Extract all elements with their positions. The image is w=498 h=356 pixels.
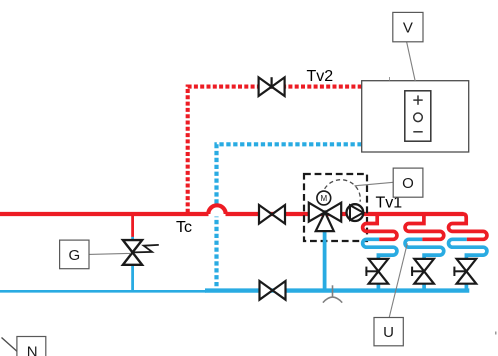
svg-text:Tv2: Tv2 [307,68,334,85]
wire: red supply main right segment [226,212,464,216]
floor loop 1 return (blue) [363,239,397,259]
lockshield valve loop 3 [453,259,476,284]
stray mark bottom right [495,332,497,335]
mixing unit dashed enclosure [304,174,367,241]
wire: blue stub loop 3 valve to return main [465,283,469,290]
wire: blue stub loop 2 valve to return main [422,283,426,290]
valve on red supply main [259,205,285,224]
pipe bridge: supply main over blue capillary [208,205,225,216]
controller display (+ o -) [405,91,431,141]
svg-text:O: O [402,175,414,192]
floor loop 3 return (blue) [449,239,487,259]
valve Tv2 on red capillary [259,77,285,96]
label box U with leader [374,243,407,345]
lockshield valve loop 2 [411,259,434,284]
safety valve at G (vertical bowtie with spring) [123,240,159,265]
floor loop 2 supply (red) [405,213,444,240]
valve on blue return main [260,281,286,300]
svg-text:Tc: Tc [176,219,192,236]
actuator dashed circle [325,180,361,202]
wire: blue stub above safety valve [131,237,134,241]
wire: red capillary Tv2 (dotted) controller to supply main at Tc [188,87,362,213]
motor M on mixing valve [317,191,331,205]
label box G with leader [60,240,131,269]
pump [347,204,364,221]
label box N with leader [2,337,46,356]
three-way mixing valve [309,203,341,231]
floor loop 3 supply (red, fed from main end) [449,214,487,239]
wire: blue return main thin left segment [0,290,206,293]
controller box [362,81,469,152]
wire: blue stub loop 1 valve to return main [377,283,381,290]
svg-text:G: G [68,247,80,264]
wire: red supply main left segment [0,212,209,216]
wire: blue sensor capillary (dotted) controller to return main [217,144,362,288]
floor loop 1 supply (red) [363,213,397,240]
siphon symbol under return main [323,285,342,302]
lockshield valve loop 1 [365,259,388,284]
stray tick above controller [389,77,390,81]
wire: blue drop from safety valve to return main [131,264,134,291]
svg-text:U: U [383,324,394,341]
svg-text:M: M [320,194,327,203]
svg-text:V: V [403,20,413,37]
svg-text:N: N [27,344,38,356]
floor loop 2 return (blue) [405,239,444,259]
wire: blue outlet from three-way valve to return main [323,229,327,289]
wire: red branch down to safety valve [131,214,134,237]
label box O with leader [355,168,423,197]
label box V with leader [393,12,423,81]
wire: blue return main thick segment [205,288,469,292]
